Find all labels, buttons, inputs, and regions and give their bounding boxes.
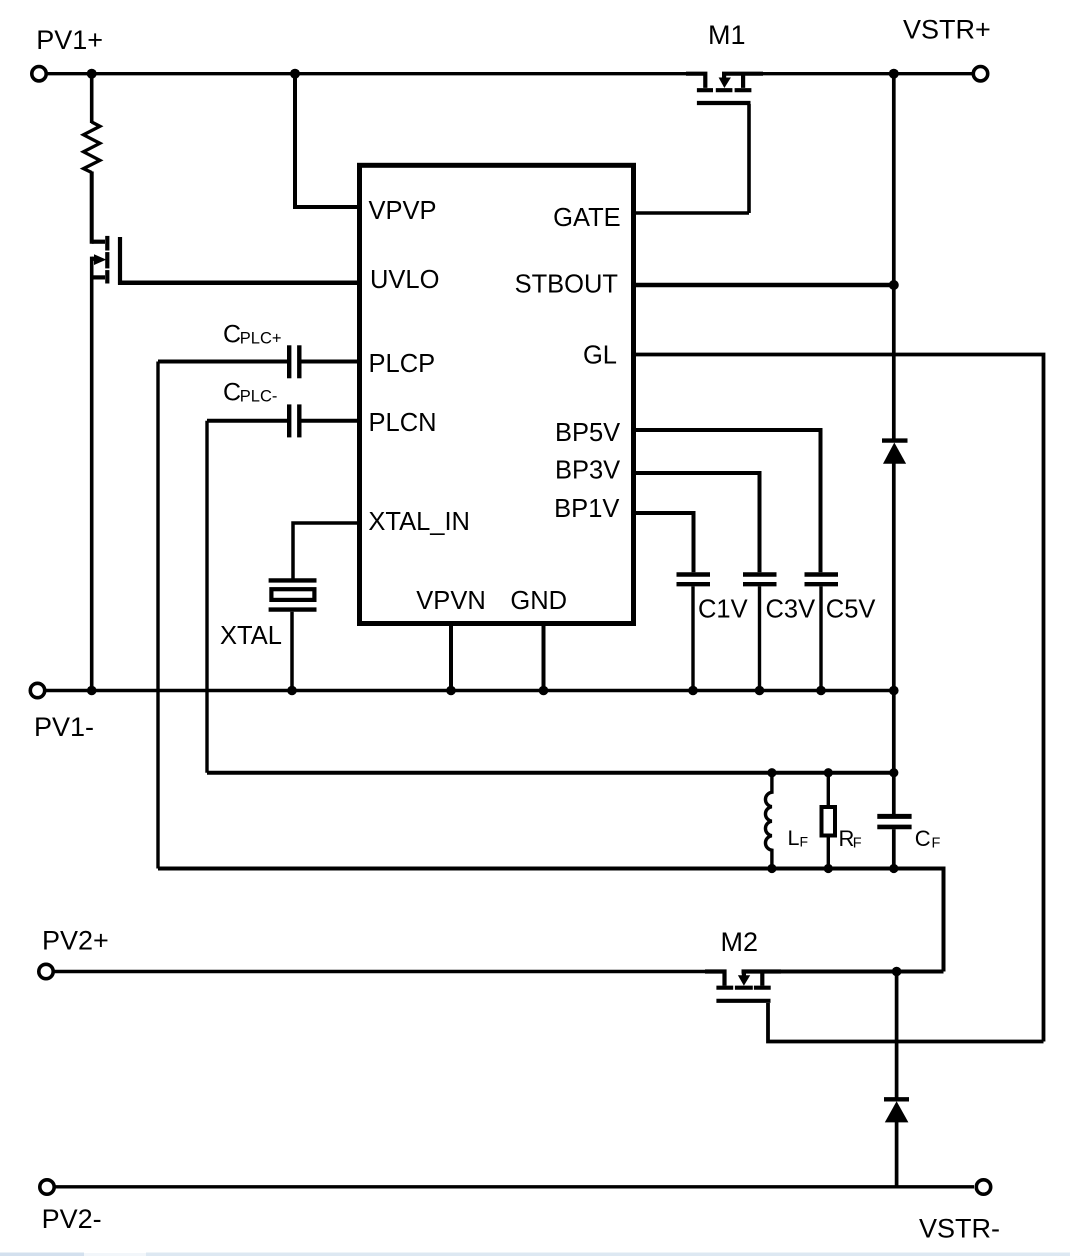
svg-text:PV2+: PV2+: [42, 926, 109, 956]
wire CPLC+ left to filter bottom: [156, 362, 159, 869]
svg-text:VPVP: VPVP: [369, 197, 437, 225]
node junction rail XTAL: [287, 686, 297, 696]
svg-text:C: C: [915, 826, 931, 851]
inductor LF: [765, 773, 771, 869]
svg-text:BP1V: BP1V: [554, 495, 619, 523]
svg-text:M2: M2: [721, 927, 759, 957]
node junction PV1+ rail / resistor: [87, 69, 97, 79]
svg-text:PLCP: PLCP: [369, 350, 436, 378]
capacitor CPLC+: [158, 345, 360, 378]
wire PV1- rail: [45, 689, 894, 692]
wire VPVP: [295, 74, 360, 207]
terminal VSTR+: [973, 67, 987, 81]
node junction rail / VSTR+ column: [889, 69, 899, 79]
svg-text:XTAL: XTAL: [220, 622, 282, 650]
wire filter top rail: [207, 771, 894, 775]
crystal XTAL: [269, 580, 317, 690]
wire bottom rail: [55, 1185, 975, 1188]
wire BP3V: [634, 473, 760, 572]
resistor R1: [84, 122, 100, 173]
svg-text:XTAL_IN: XTAL_IN: [368, 508, 470, 536]
wire VSTR+ column upper: [892, 74, 896, 441]
wire resistor to Q1 drain: [90, 172, 94, 244]
svg-text:PLCN: PLCN: [369, 409, 437, 437]
svg-text:C1V: C1V: [698, 596, 748, 624]
window artifact bar bottom: [0, 1253, 1070, 1257]
wire BP5V: [634, 430, 821, 572]
node junction filter bottom LF: [767, 864, 776, 873]
terminal PV2-: [40, 1180, 54, 1194]
terminal PV1-: [30, 683, 44, 697]
node junction filter bottom RF: [824, 864, 833, 873]
node junction STBOUT / VSTR+ column: [889, 280, 899, 290]
capacitor C1V: [677, 575, 711, 691]
capacitor C5V: [805, 575, 839, 691]
wire VPVN pin: [449, 626, 453, 691]
svg-text:F: F: [932, 836, 941, 852]
transistor M2: [705, 972, 781, 1001]
transistor Q1: [92, 236, 120, 285]
svg-text:L: L: [788, 826, 800, 850]
svg-text:PLC+: PLC+: [240, 330, 282, 348]
wire top rail right of M1: [763, 72, 973, 75]
node junction rail C1V: [688, 686, 698, 696]
wire XTAL_IN: [293, 523, 360, 579]
node junction rail C5V: [816, 686, 826, 696]
svg-text:PLC-: PLC-: [240, 388, 278, 406]
resistor RF: [822, 773, 836, 869]
svg-text:F: F: [853, 836, 862, 852]
wire PV2+: [54, 970, 706, 973]
capacitor CPLC-: [207, 404, 360, 437]
wire STBOUT: [634, 283, 895, 288]
label CPLC+: [223, 321, 282, 349]
transistor M1: [686, 74, 763, 103]
node junction rail C3V: [755, 686, 765, 696]
op-amp U1 IC body: [360, 165, 634, 623]
svg-text:PV2-: PV2-: [42, 1204, 102, 1234]
node junction rail GND: [539, 686, 549, 696]
node junction rail Q1: [87, 686, 97, 696]
svg-text:UVLO: UVLO: [370, 266, 439, 294]
wire Q1 source to PV1- rail: [90, 257, 94, 691]
wire M1 gate lead: [747, 104, 751, 213]
svg-text:M1: M1: [708, 20, 746, 50]
node junction filter bottom CF: [889, 864, 898, 873]
wire diode D2 to rail: [895, 1121, 899, 1187]
node junction M2 drain / D2 column: [892, 967, 902, 977]
wire UVLO: [118, 281, 360, 286]
svg-text:PV1-: PV1-: [34, 712, 94, 742]
wire CPLC- left to filter top: [205, 421, 208, 773]
wire M2 gate lead: [768, 1003, 1044, 1042]
svg-text:BP5V: BP5V: [555, 419, 620, 447]
label LF: [788, 826, 809, 850]
svg-text:F: F: [800, 834, 809, 850]
wire GND pin: [542, 626, 546, 691]
label CF: [915, 826, 941, 852]
node junction filter top CF: [889, 768, 898, 777]
node junction rail VPVN: [446, 686, 456, 696]
wire GL: [634, 355, 1044, 1042]
capacitor C3V: [743, 575, 777, 691]
svg-text:GATE: GATE: [553, 204, 621, 232]
terminal PV1+: [32, 67, 46, 81]
svg-text:BP3V: BP3V: [555, 457, 620, 485]
wire top rail: [47, 72, 687, 75]
terminal PV2+: [39, 964, 53, 978]
node junction filter top LF: [767, 768, 776, 777]
terminal VSTR-: [976, 1180, 990, 1194]
label RF: [839, 826, 862, 852]
wire filter bottom rail: [158, 869, 944, 972]
node junction rail diode column: [889, 686, 899, 696]
node junction filter top RF: [824, 768, 833, 777]
svg-text:GL: GL: [583, 341, 617, 369]
svg-text:C3V: C3V: [766, 596, 816, 624]
svg-text:C: C: [223, 321, 241, 349]
svg-text:VSTR-: VSTR-: [919, 1214, 1000, 1244]
wire diode D1 to filter: [892, 463, 896, 814]
diode D2: [884, 1099, 909, 1122]
svg-text:VPVN: VPVN: [416, 587, 485, 615]
wire GATE: [634, 211, 750, 215]
svg-text:C: C: [223, 379, 241, 407]
diode D1: [882, 441, 908, 464]
node junction rail / VPVP: [290, 69, 300, 79]
wire M2 drain: [779, 970, 944, 974]
svg-text:VSTR+: VSTR+: [903, 15, 991, 45]
wire D2 column: [895, 972, 899, 1099]
wire BP1V: [634, 513, 694, 572]
wire rail to resistor: [90, 74, 94, 123]
svg-text:GND: GND: [510, 587, 567, 615]
label CPLC-: [223, 379, 277, 407]
svg-text:PV1+: PV1+: [36, 25, 103, 55]
svg-text:STBOUT: STBOUT: [515, 270, 618, 298]
capacitor CF: [877, 816, 911, 868]
svg-text:C5V: C5V: [826, 596, 876, 624]
